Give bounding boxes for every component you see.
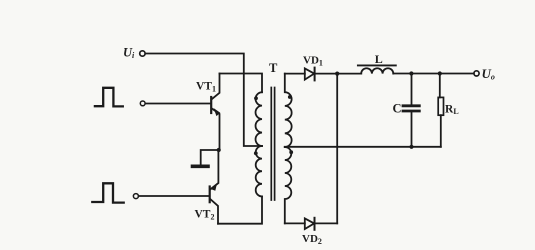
phase dot secondary bottom (289, 150, 293, 154)
transformer secondary winding bottom half (285, 147, 292, 223)
ground (193, 150, 219, 166)
wire VT2 collector to primary bottom (218, 196, 262, 223)
transformer core (271, 88, 274, 201)
transistor VT2 (PNP) (210, 150, 219, 224)
svg-text:VT2: VT2 (195, 209, 215, 222)
transformer secondary winding top half (285, 74, 292, 147)
wire VT1 collector to primary top (220, 74, 263, 93)
transformer T primary winding top half (256, 92, 262, 146)
junction dot RL top (438, 71, 442, 75)
diode VD1 (305, 68, 315, 81)
wire base drive 2 to VT2 base (139, 195, 209, 197)
capacitor C (403, 74, 419, 147)
terminal Uo (output) (474, 71, 479, 76)
junction dot C top (409, 71, 413, 75)
svg-text:L: L (375, 52, 383, 66)
wire secondary center tap / load return rail (285, 146, 441, 148)
phase dot primary bottom (254, 151, 258, 155)
wire L to output terminal (393, 73, 474, 75)
junction dot C bottom (409, 145, 413, 149)
pulse symbol input 2 (92, 183, 123, 202)
terminal Ui (input supply) (140, 51, 145, 56)
svg-text:Uo: Uo (482, 66, 495, 82)
wire base drive 1 to VT1 base (145, 103, 210, 105)
svg-text:VD1: VD1 (303, 55, 323, 68)
phase dot primary top (254, 96, 258, 100)
svg-text:Ui: Ui (123, 46, 135, 61)
inductor L (358, 65, 396, 73)
terminal base drive 2 (133, 194, 138, 199)
diode VD2 (305, 218, 315, 230)
wire secondary top to VD1 (285, 73, 305, 75)
resistor RL (438, 74, 443, 147)
wire VD1 cathode to junction A (315, 73, 338, 75)
svg-text:C: C (393, 101, 402, 115)
junction VT1e/VT2e/ground (217, 148, 221, 152)
svg-text:VT1: VT1 (196, 81, 216, 94)
transformer T primary winding bottom half (256, 146, 262, 196)
svg-text:VD2: VD2 (302, 233, 322, 246)
svg-text:RL: RL (445, 103, 459, 116)
transistor VT1 (NPN) (211, 74, 220, 151)
terminal base drive 1 (140, 101, 145, 106)
junction A dot (335, 72, 339, 76)
wire junction A to inductor L (337, 73, 361, 75)
svg-text:T: T (269, 61, 278, 75)
wire secondary bottom to VD2 (285, 222, 305, 224)
wire Ui to primary center tap (145, 54, 262, 147)
wire junction A down to VD2 cathode (336, 74, 338, 224)
wire VD2 cathode to junction A riser (315, 222, 338, 224)
phase dot secondary top (288, 95, 292, 99)
pulse symbol input 1 (95, 88, 123, 107)
